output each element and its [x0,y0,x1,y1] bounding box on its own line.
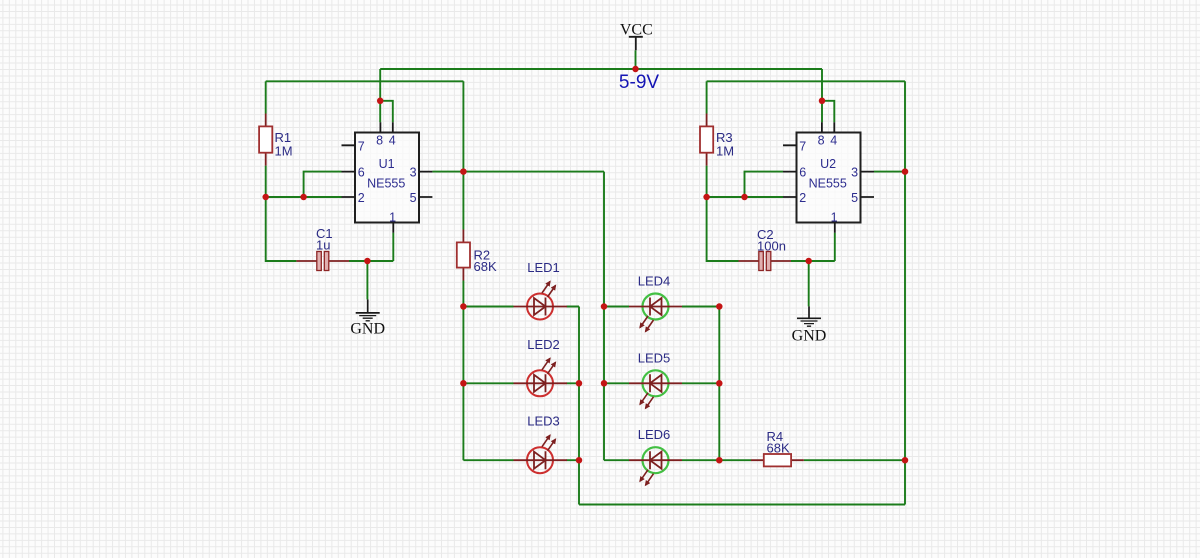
node U1 pin6 tap [300,194,307,201]
node LED5 right [716,380,723,387]
wire LED1 row [463,306,579,308]
node U2 pin3 / right rail [902,168,909,175]
resistor R3 [700,114,734,166]
svg-text:GND: GND [792,328,827,345]
svg-text:LED4: LED4 [638,274,671,289]
wire right vertical above R3 [706,81,708,113]
node LED4 right [716,303,723,310]
wire U2 pin3 row [874,171,905,173]
wire VCC flag drop [635,50,637,69]
svg-text:LED5: LED5 [638,350,671,365]
svg-text:7: 7 [358,139,365,153]
svg-text:VCC: VCC [620,22,653,39]
svg-text:GND: GND [350,321,385,338]
node U1 pin3 / R2 [460,168,467,175]
wire U2 pin4 jog [822,101,834,123]
node U1 pins 8-4 [377,98,384,105]
node LED4 left [601,303,608,310]
svg-text:5-9V: 5-9V [619,72,659,93]
svg-text:LED3: LED3 [527,414,560,429]
wire U1 pin2 row [266,196,342,198]
node U2 pin6 tap [741,194,748,201]
wire GND1 drop [366,261,368,299]
node LED2 left [460,380,467,387]
wire U1 pin3 row [432,171,604,173]
wire LED5 row [604,382,719,384]
wire right vertical x905 (U2 out) [904,81,906,504]
wire U1 pin6 jog [304,172,342,197]
wire left vertical below R1 to C1 [266,166,297,261]
wire U2 pin8 vertical from rail [821,69,823,122]
svg-text:5: 5 [410,191,417,205]
svg-text:8: 8 [376,134,383,148]
wire LED4 row [604,306,719,308]
svg-text:NE555: NE555 [809,177,847,191]
svg-text:4: 4 [830,134,837,148]
node LED6 right / R4 [716,457,723,464]
LED LED3 [514,414,568,474]
svg-text:1: 1 [831,210,838,224]
svg-text:1: 1 [389,210,396,224]
wire rail B right (U2 out to R3) [707,80,905,82]
resistor R1 [259,114,292,166]
resistor R4 [751,429,804,466]
LED LED4 [629,274,682,332]
wire U1 pin4 jog [380,101,393,123]
wire LED3 row [463,459,579,461]
node C2 / GND2 [805,258,812,265]
node LED1 left [460,303,467,310]
ground GND2 [792,306,827,344]
wire U2 pin1 drop [834,233,836,261]
svg-text:1M: 1M [275,144,293,159]
node R3 / U2 pin2 [703,194,710,201]
wire VCC rail top [380,68,822,70]
resistor R2 [457,230,497,281]
op-amp U2 (NE555 timer) [783,122,874,232]
capacitor C1 [296,226,349,271]
wire U1 pin1 drop [392,233,394,261]
op-amp U1 (NE555 timer) [342,122,433,232]
svg-text:8: 8 [818,134,825,148]
node VCC junction [632,66,639,73]
ground GND1 [350,299,385,337]
svg-text:68K: 68K [767,441,790,456]
svg-text:1M: 1M [716,144,734,159]
node LED2 right [576,380,583,387]
LED LED6 [629,427,682,485]
svg-text:NE555: NE555 [367,177,405,191]
svg-text:68K: 68K [474,259,497,274]
wire LED6 row to R4 [604,459,905,461]
svg-text:3: 3 [410,166,417,180]
node R4 right / right rail [902,457,909,464]
wire C2 right to U2 pin1 [791,260,835,262]
wire rail B left (U1 out to R1) [266,80,464,82]
svg-text:6: 6 [358,166,365,180]
node R1 / U1 pin2 [262,194,269,201]
node LED3 right [576,457,583,464]
svg-text:LED2: LED2 [527,337,560,352]
power flag VCC [620,22,653,51]
wire U2 pin2 row [707,196,783,198]
svg-text:U1: U1 [379,157,395,171]
wire vertical x463 below R2 to LED3 row [462,281,464,461]
wire C1 right to U1 pin1 [349,260,393,262]
svg-text:7: 7 [799,139,806,153]
svg-text:LED6: LED6 [638,427,671,442]
svg-text:3: 3 [851,166,858,180]
wire vertical x463 rail B to pin3 node [462,81,464,229]
svg-text:5: 5 [851,191,858,205]
wire U1 pin8 vertical from rail [379,69,381,122]
capacitor C2 [739,227,792,271]
svg-text:4: 4 [389,134,396,148]
svg-text:100n: 100n [757,239,786,254]
wire bottom rail [579,504,905,506]
wire LED2 row [463,382,579,384]
svg-text:LED1: LED1 [527,260,560,275]
svg-text:U2: U2 [820,157,836,171]
node LED5 left [601,380,608,387]
svg-text:1u: 1u [316,238,330,253]
svg-text:6: 6 [799,166,806,180]
svg-text:2: 2 [799,191,806,205]
node C1 / GND1 [364,258,371,265]
wire GND2 drop [808,261,810,306]
wire right vertical below R3 to C2 [707,166,739,261]
wire vertical x604 (U1 out to LED4-6) [603,172,605,461]
wire LED right vertical x579 [578,307,580,505]
node U2 pins 8-4 [819,98,826,105]
svg-text:2: 2 [358,191,365,205]
LED LED5 [629,350,682,408]
LED LED1 [514,260,568,320]
wire LED4-6 right vertical x719 [718,307,720,461]
LED LED2 [514,337,568,397]
wire U2 pin6 jog [745,172,784,197]
wire left vertical above R1 [265,81,267,113]
